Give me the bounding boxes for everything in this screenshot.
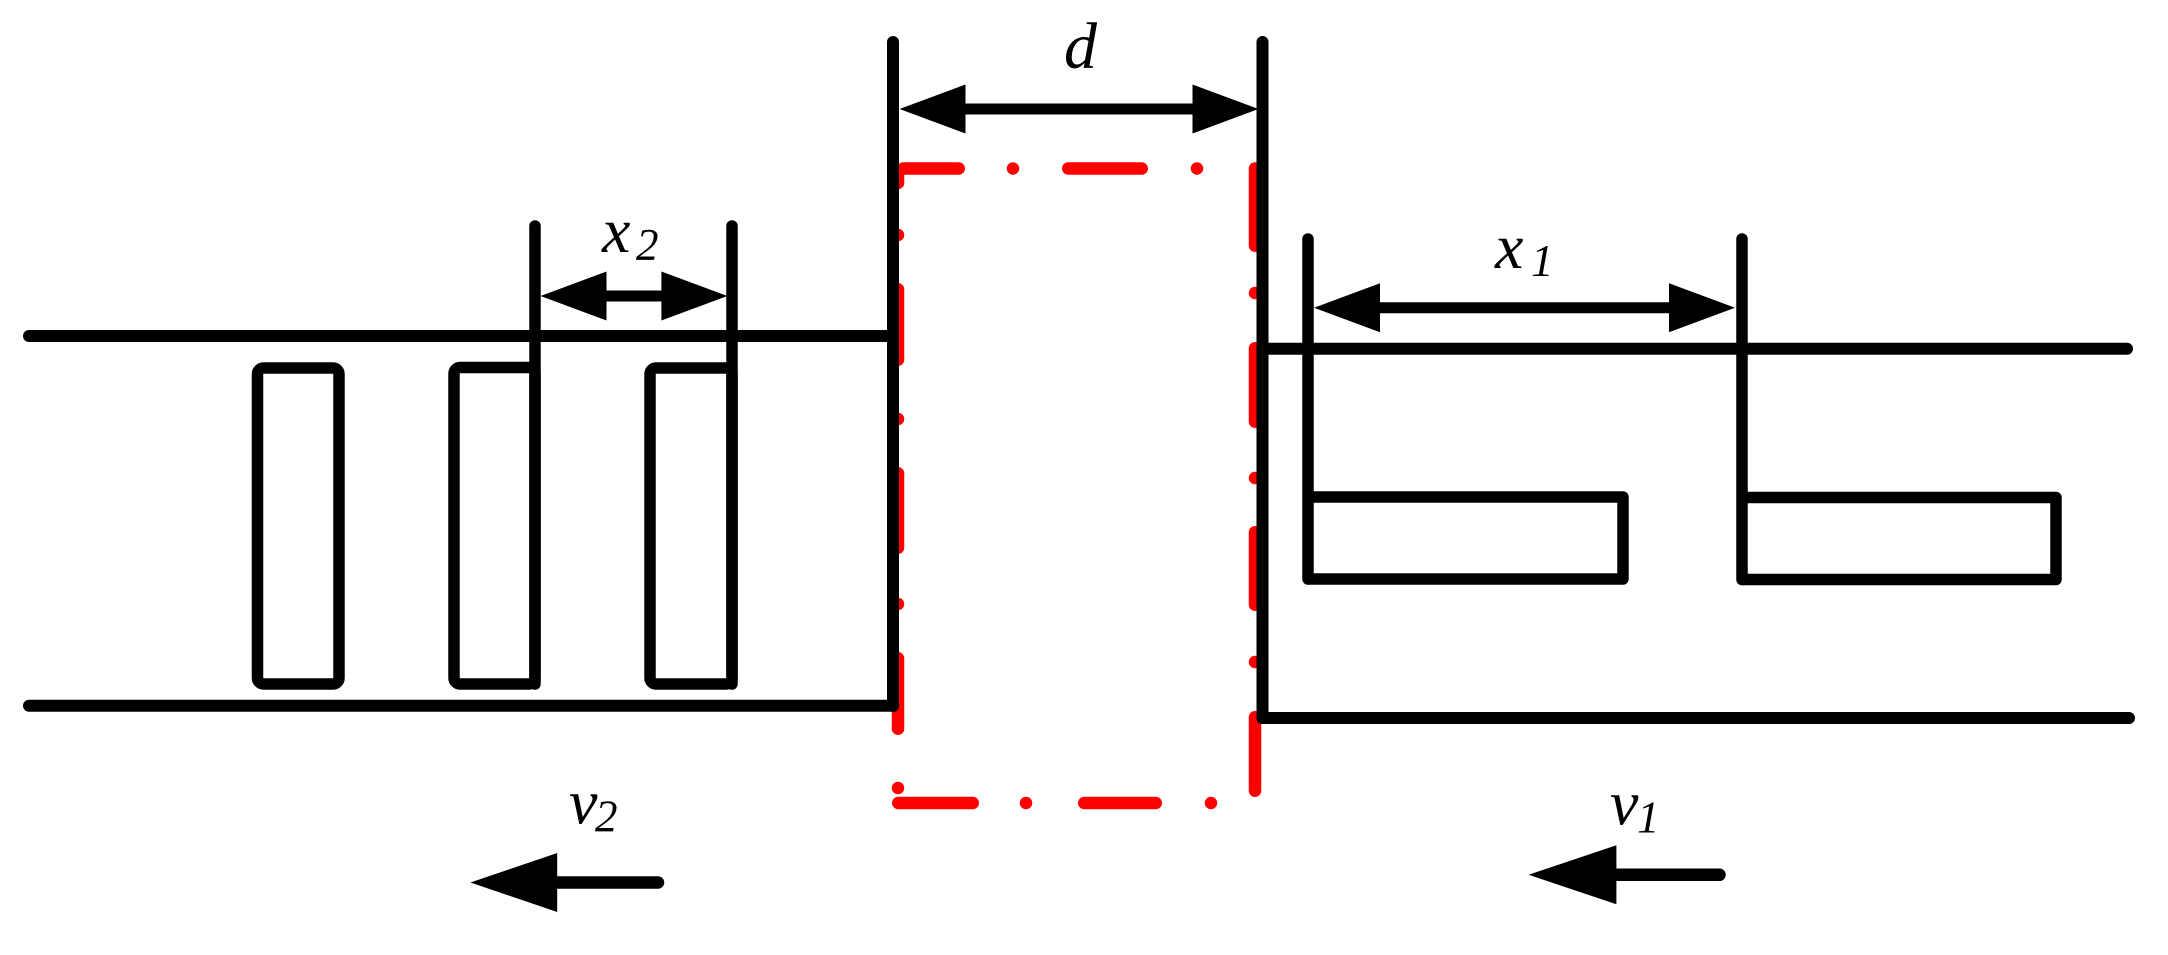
dimension arrow x1 bbox=[1314, 283, 1735, 332]
tick over T3 right edge bbox=[726, 226, 738, 684]
right slider bottom rail bbox=[1263, 712, 2130, 724]
right tooth L1 vertical + tick bbox=[1302, 239, 1314, 579]
svg-text:1: 1 bbox=[1531, 236, 1554, 286]
left tooth T1 bbox=[258, 368, 340, 684]
right tooth L2 vertical + tick bbox=[1736, 239, 1748, 580]
svg-text:x: x bbox=[601, 195, 630, 266]
dimension arrow x2 bbox=[541, 272, 728, 321]
svg-text:v: v bbox=[1610, 768, 1639, 839]
wire: left stator top rail bbox=[29, 330, 893, 342]
svg-text:2: 2 bbox=[595, 792, 618, 842]
left tooth T2 bbox=[454, 368, 535, 685]
svg-text:2: 2 bbox=[636, 220, 659, 270]
left stator end plate bbox=[887, 42, 899, 706]
left tooth T3 bbox=[650, 368, 732, 684]
gap outline left edge bbox=[892, 173, 905, 794]
svg-text:x: x bbox=[1494, 211, 1523, 282]
right tooth L2 bar bbox=[1742, 498, 2056, 580]
velocity arrow v1 bbox=[1529, 845, 1720, 904]
gap outline right edge bbox=[1249, 169, 1262, 791]
dimension arrow d bbox=[900, 85, 1259, 134]
right slider end plate bbox=[1257, 42, 1269, 718]
tick over T2 right edge bbox=[529, 226, 541, 684]
gap outline bottom edge bbox=[898, 797, 1217, 810]
svg-text:v: v bbox=[569, 767, 598, 838]
right tooth L1 bar bbox=[1308, 497, 1623, 579]
svg-text:1: 1 bbox=[1637, 793, 1660, 843]
svg-text:d: d bbox=[1064, 10, 1098, 83]
wire: left stator bottom rail bbox=[29, 700, 893, 712]
gap outline (red dash-dot rectangle), top edge bbox=[903, 162, 1203, 175]
velocity arrow v2 bbox=[470, 853, 658, 912]
right slider top rail bbox=[1263, 343, 2128, 355]
